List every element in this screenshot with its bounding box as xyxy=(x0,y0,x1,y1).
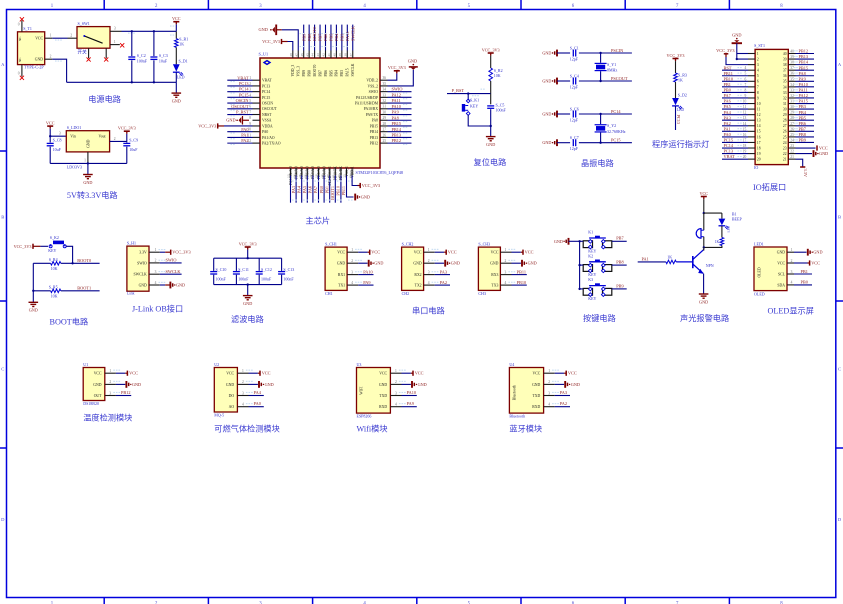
U3 pin 1 VCC xyxy=(390,372,401,374)
svg-text:GND: GND xyxy=(337,262,345,266)
wire resistor to collector node xyxy=(704,246,722,248)
S_CH1 pin 4 TX1 xyxy=(347,284,358,286)
svg-text:2: 2 xyxy=(70,34,72,38)
svg-text:GND: GND xyxy=(226,383,234,387)
svg-text:12: 12 xyxy=(743,111,747,115)
wire ST1 pin 26 to net PB7 xyxy=(796,130,815,132)
svg-text:10K: 10K xyxy=(51,293,58,298)
U1 top pin 45 PB8 xyxy=(308,51,310,59)
U1 left pin 3 PC14 xyxy=(253,91,261,93)
svg-text:VCC_3V3: VCC_3V3 xyxy=(388,65,406,70)
ST1 right pin 21 xyxy=(788,158,795,160)
svg-text:声光报警电路: 声光报警电路 xyxy=(680,313,729,323)
svg-text:32: 32 xyxy=(790,94,794,98)
svg-text:LED: LED xyxy=(727,225,731,232)
svg-text:4: 4 xyxy=(249,93,251,97)
wire rail to K3 xyxy=(580,288,584,290)
ST1 right pin 31 xyxy=(788,103,795,105)
svg-text:S_H1: S_H1 xyxy=(127,240,136,245)
svg-text:AO: AO xyxy=(229,405,235,409)
svg-text:100nF: 100nF xyxy=(496,108,507,113)
junction top S_Y2 xyxy=(599,113,601,115)
wire net VBAT to U1 pin 1 xyxy=(227,79,252,81)
svg-text:38: 38 xyxy=(790,61,794,65)
U1 left pin 8 VSSA xyxy=(253,119,261,121)
svg-text:S_CH1: S_CH1 xyxy=(325,241,337,246)
svg-text:OSCIN: OSCIN xyxy=(262,101,273,105)
svg-text:10K: 10K xyxy=(51,266,58,271)
T1 top no-connect pin xyxy=(21,21,23,32)
svg-text:8: 8 xyxy=(757,91,759,95)
svg-text:17: 17 xyxy=(743,138,747,142)
svg-text:1: 1 xyxy=(351,248,353,252)
svg-text:PB7: PB7 xyxy=(799,126,807,131)
svg-text:28: 28 xyxy=(790,116,794,120)
wire ST1 pin 33 to net PA11 xyxy=(796,91,815,93)
svg-text:30: 30 xyxy=(790,105,794,109)
svg-text:LED1: LED1 xyxy=(754,241,764,246)
svg-text:9: 9 xyxy=(757,96,759,100)
svg-text:VCC_3V3: VCC_3V3 xyxy=(14,244,32,249)
svg-text:PB14: PB14 xyxy=(799,60,809,65)
wire VCC_3V3 to key S_K2 xyxy=(40,245,48,247)
ground symbol alarm xyxy=(699,293,709,295)
ST1 left pin 6 xyxy=(748,80,755,82)
U1 bottom pin 16 PA6/AO xyxy=(306,168,308,176)
svg-text:Vin: Vin xyxy=(70,135,76,139)
svg-text:7: 7 xyxy=(757,85,759,89)
wire ST1 pin 40 to net PB12 xyxy=(796,53,815,55)
svg-text:GND: GND xyxy=(374,261,383,266)
svg-text:PA3: PA3 xyxy=(291,186,296,193)
svg-text:U2: U2 xyxy=(214,362,219,367)
U1 top pin 48 VDD_3 xyxy=(292,51,294,59)
svg-text:PB13: PB13 xyxy=(392,133,402,138)
svg-text:PB12: PB12 xyxy=(799,49,809,54)
ST1 left pin 7 xyxy=(748,86,755,88)
svg-text:VSSA: VSSA xyxy=(262,119,272,123)
svg-text:29: 29 xyxy=(790,111,794,115)
wire P_RST node xyxy=(447,93,491,95)
power GND above VSS_2 xyxy=(411,68,416,70)
svg-text:PSCIN: PSCIN xyxy=(611,48,623,53)
U1 bottom pin 15 PA5/AO xyxy=(301,168,303,176)
ST1 left pin 3 xyxy=(748,64,755,66)
svg-text:32: 32 xyxy=(783,96,787,100)
svg-text:NC: NC xyxy=(18,58,22,62)
svg-text:VCC: VCC xyxy=(415,371,424,376)
svg-text:PB10: PB10 xyxy=(724,76,734,81)
U3 pin 2 GND xyxy=(390,383,401,385)
svg-text:PB4: PB4 xyxy=(335,70,339,77)
ST1 left pin 18 xyxy=(748,147,755,149)
wire U4 RXD to net PA2 xyxy=(555,406,570,408)
power GND for S_C1 xyxy=(556,50,558,57)
wire key to BOOT0 node xyxy=(66,246,72,263)
svg-text:S_C11: S_C11 xyxy=(238,267,249,272)
svg-text:2: 2 xyxy=(249,82,251,86)
wire VSS_1 to GND bottom xyxy=(347,176,354,198)
svg-text:PA3: PA3 xyxy=(440,269,447,274)
svg-text:39: 39 xyxy=(790,55,794,59)
wire GND to key rail xyxy=(569,240,580,242)
svg-text:IO拓展口: IO拓展口 xyxy=(753,182,786,192)
svg-text:34: 34 xyxy=(790,83,794,87)
svg-text:2: 2 xyxy=(428,259,430,263)
svg-text:PA12: PA12 xyxy=(799,93,808,98)
wire U1 bottom pin to net PA3 xyxy=(290,176,292,203)
wire LED to bottom rail xyxy=(175,72,177,82)
svg-text:1: 1 xyxy=(109,369,111,373)
wire net OSCOUT to U1 pin 6 xyxy=(227,108,252,110)
svg-text:37: 37 xyxy=(783,69,787,73)
svg-text:1: 1 xyxy=(242,369,244,373)
wire U2 DO to net PA4 xyxy=(249,395,264,397)
svg-text:S_CH3: S_CH3 xyxy=(478,241,490,246)
svg-text:VCC: VCC xyxy=(172,16,181,21)
svg-text:VCC: VCC xyxy=(35,37,43,41)
svg-text:PC15: PC15 xyxy=(611,138,621,143)
U1 bottom pin 18 PB0/AO xyxy=(318,168,320,176)
wire U1 bottom pin to net BOOT1 xyxy=(329,176,331,203)
svg-text:RXD: RXD xyxy=(532,405,540,409)
svg-text:44: 44 xyxy=(311,53,315,57)
ST1 left pin 10 xyxy=(748,103,755,105)
svg-text:按键电路: 按键电路 xyxy=(583,313,616,323)
U2 pin 4 AO xyxy=(237,406,248,408)
power GND at S_CH2 xyxy=(444,260,446,267)
wire net PA1 to ST1 pin 15 xyxy=(722,130,748,132)
wire VCC to R2 xyxy=(490,56,492,68)
svg-text:40: 40 xyxy=(333,53,337,57)
svg-text:PA11/USB/DM: PA11/USB/DM xyxy=(355,101,379,105)
wire U1 bottom pin to net PB11 xyxy=(340,176,342,203)
capacitor S_C9 xyxy=(126,141,128,142)
svg-text:S_C3: S_C3 xyxy=(159,53,168,58)
svg-text:GND: GND xyxy=(176,283,185,288)
svg-text:NPN: NPN xyxy=(706,263,714,268)
svg-text:43: 43 xyxy=(316,53,320,57)
S_CH1 pin 3 RX1 xyxy=(347,274,358,276)
svg-text:PA9/TX: PA9/TX xyxy=(366,113,378,117)
svg-text:STM32F103C8T6_LQFP48: STM32F103C8T6_LQFP48 xyxy=(356,170,403,175)
svg-text:PB13: PB13 xyxy=(799,54,809,59)
wire cap branch vertical xyxy=(490,94,492,105)
svg-text:GND: GND xyxy=(29,308,38,313)
svg-text:PB9: PB9 xyxy=(799,138,806,143)
svg-text:VDDA: VDDA xyxy=(262,124,273,128)
svg-text:GND: GND xyxy=(813,250,822,255)
svg-text:5: 5 xyxy=(249,99,251,103)
svg-text:38: 38 xyxy=(343,53,347,57)
svg-text:PA1: PA1 xyxy=(241,133,248,138)
wire S_CH1 GND xyxy=(358,262,367,264)
U1 pin 3 OUT xyxy=(105,395,116,397)
svg-text:45: 45 xyxy=(305,53,309,57)
svg-text:9: 9 xyxy=(249,122,251,126)
key S_K1 push button xyxy=(462,104,465,112)
svg-text:VCC_3V3: VCC_3V3 xyxy=(716,48,734,53)
svg-text:PA10: PA10 xyxy=(407,390,416,395)
svg-text:30: 30 xyxy=(383,110,387,114)
ST1 right pin 36 xyxy=(788,75,795,77)
svg-text:22: 22 xyxy=(783,152,787,156)
S_CH2 pin 4 TX2 xyxy=(424,284,435,286)
svg-text:OSCOUT: OSCOUT xyxy=(262,107,277,111)
wire VCC_3V3 to ST1 pin 3 xyxy=(725,54,727,57)
wire ST1 pin 25 to net PB8 xyxy=(796,136,815,138)
connector S_CH1 body xyxy=(325,247,347,290)
capacitor S_C8 xyxy=(49,136,51,142)
wire net PC15 to ST1 pin 17 xyxy=(722,141,748,143)
U1 bottom pin 17 PA7/AO xyxy=(312,168,314,176)
svg-text:CH3: CH3 xyxy=(478,291,486,296)
wire left rail top xyxy=(33,262,50,264)
wire net PA0 to U1 pin 10 xyxy=(227,131,252,133)
svg-text:1: 1 xyxy=(505,248,507,252)
wire net PC14 to U1 pin 3 xyxy=(227,91,252,93)
U2 pin 2 GND xyxy=(237,383,248,385)
svg-text:TX3: TX3 xyxy=(491,284,498,288)
svg-text:S_ST1: S_ST1 xyxy=(754,43,765,48)
svg-text:100nF: 100nF xyxy=(216,277,227,282)
svg-text:22: 22 xyxy=(790,150,794,154)
wire ST1 pin 32 to net PA12 xyxy=(796,97,815,99)
wire VCC_3V3 to VDD_3 top pin xyxy=(288,42,293,51)
svg-text:PB1: PB1 xyxy=(724,82,731,87)
svg-text:GND: GND xyxy=(777,251,785,255)
svg-text:25: 25 xyxy=(783,135,787,139)
svg-text:VCC: VCC xyxy=(129,371,138,376)
LDO S_LDO1 body xyxy=(66,131,109,152)
display LED1 OLED body xyxy=(754,247,787,291)
svg-text:3: 3 xyxy=(791,270,793,274)
svg-text:35: 35 xyxy=(783,80,787,84)
resistor base 1K xyxy=(666,260,676,264)
power GND at ST1 pin 22 xyxy=(796,153,813,155)
wire K3 to net PB9 xyxy=(612,288,627,290)
wire net PB10 to ST1 pin 6 xyxy=(722,80,748,82)
svg-text:PA9: PA9 xyxy=(392,110,399,115)
wire LED to resistor alarm xyxy=(721,226,723,238)
SW1 pin 1 stub right with no-ERC cross xyxy=(110,44,120,46)
wire boot rail vertical xyxy=(32,263,34,291)
wire VCC to R3 xyxy=(675,61,677,73)
S_CH2 pin 1 VCC xyxy=(424,251,435,253)
U1 right pin 30 PA9/TX xyxy=(380,114,388,116)
svg-text:PB9: PB9 xyxy=(301,34,306,41)
svg-text:OSCOUT: OSCOUT xyxy=(231,104,249,109)
LED1 pin 1 GND xyxy=(787,251,794,253)
svg-text:TX1: TX1 xyxy=(338,284,345,288)
wire S_C4 to node and net PSCOUT xyxy=(579,80,632,82)
wire LED D2 down with net PC13 xyxy=(675,106,677,130)
svg-text:BOOT电路: BOOT电路 xyxy=(50,317,89,327)
svg-text:VCC: VCC xyxy=(525,250,534,255)
svg-text:PB8: PB8 xyxy=(307,34,312,41)
svg-text:27: 27 xyxy=(783,124,787,128)
capacitor S_C13 100nF xyxy=(281,258,283,271)
svg-text:1K: 1K xyxy=(715,240,720,244)
svg-text:46: 46 xyxy=(300,53,304,57)
LED S_D1 xyxy=(173,64,180,71)
S_CH2 pin 2 GND xyxy=(424,262,435,264)
svg-text:2: 2 xyxy=(155,259,157,263)
svg-text:LED: LED xyxy=(177,75,185,80)
svg-text:GND: GND xyxy=(542,112,551,117)
U1 left pin 10 PA0 xyxy=(253,131,261,133)
svg-text:S_U1: S_U1 xyxy=(259,52,269,57)
resistor S_R5 10K xyxy=(51,289,61,293)
svg-text:可燃气体检测模块: 可燃气体检测模块 xyxy=(214,424,280,434)
U1 right pin 28 PB15 xyxy=(380,125,388,127)
U1 top pin 46 PB9 xyxy=(303,51,305,59)
svg-text:程序运行指示灯: 程序运行指示灯 xyxy=(652,139,709,149)
svg-text:Bluetooth: Bluetooth xyxy=(509,414,525,419)
H1 pin 2 SWIO xyxy=(149,262,160,264)
T1 pin 2 GND pin stub xyxy=(45,58,53,60)
power GND for S_C4 xyxy=(556,78,558,85)
svg-text:B: B xyxy=(838,215,841,220)
svg-text:GND: GND xyxy=(139,283,147,287)
wire node down to key xyxy=(467,94,469,101)
ST1 right pin 35 xyxy=(788,80,795,82)
svg-text:VCC: VCC xyxy=(491,251,499,255)
svg-text:34: 34 xyxy=(783,85,787,89)
svg-text:K3: K3 xyxy=(588,277,593,282)
wire U1 pin 29 to net PA8 xyxy=(388,119,412,121)
svg-text:GND: GND xyxy=(243,301,252,306)
U2 pin 3 DO xyxy=(237,395,248,397)
svg-text:1: 1 xyxy=(155,248,157,252)
no-ERC cross top of T1 xyxy=(20,17,24,21)
svg-text:S_T1: S_T1 xyxy=(23,26,32,31)
svg-text:C: C xyxy=(838,367,841,372)
svg-text:PA4: PA4 xyxy=(296,185,301,193)
svg-text:温度检测模块: 温度检测模块 xyxy=(83,412,132,422)
svg-text:PA4: PA4 xyxy=(254,390,262,395)
svg-text:P_RST: P_RST xyxy=(236,110,249,115)
H1 pin 1 3.3V xyxy=(149,251,160,253)
connector S_CH2 body xyxy=(402,247,424,290)
svg-text:PA15: PA15 xyxy=(346,68,350,76)
wire K2 to net PB8 xyxy=(612,264,627,266)
ST1 left pin 1 xyxy=(748,53,755,55)
wire ST1 pin 37 to net PB15 xyxy=(796,69,815,71)
U1 top pin 38 PA15 xyxy=(346,51,348,59)
svg-text:VCC: VCC xyxy=(94,372,102,376)
svg-text:C: C xyxy=(1,367,4,372)
svg-text:K1: K1 xyxy=(588,230,593,235)
svg-text:31: 31 xyxy=(790,100,794,104)
junction bottom rail C2 xyxy=(153,81,155,83)
svg-text:PA0: PA0 xyxy=(724,132,731,137)
svg-text:3: 3 xyxy=(395,391,397,395)
ST1 right pin 40 xyxy=(788,53,795,55)
wire net PA6 to ST1 pin 10 xyxy=(722,103,748,105)
svg-text:S_LDO1: S_LDO1 xyxy=(67,125,81,130)
ground symbol power circuit xyxy=(172,92,182,94)
svg-text:PB10: PB10 xyxy=(336,186,341,196)
wire U4 VCC xyxy=(555,372,564,374)
svg-text:100nF: 100nF xyxy=(261,277,272,282)
svg-text:VCC: VCC xyxy=(337,251,345,255)
junction reset gnd node xyxy=(490,125,492,127)
svg-text:TXD: TXD xyxy=(379,394,387,398)
ST1 left pin 11 xyxy=(748,108,755,110)
svg-text:13: 13 xyxy=(757,119,761,123)
wire U1 bottom pin to net PA4 xyxy=(295,176,297,203)
svg-text:3: 3 xyxy=(249,88,251,92)
module U2 body xyxy=(214,368,237,413)
svg-text:S_SW1: S_SW1 xyxy=(78,21,90,26)
svg-text:OUT: OUT xyxy=(94,394,102,398)
svg-text:IO: IO xyxy=(754,165,758,170)
svg-text:GND: GND xyxy=(542,51,551,56)
svg-text:4: 4 xyxy=(548,403,550,407)
S_CH3 pin 2 GND xyxy=(500,262,511,264)
U1 right pin 25 PB12 xyxy=(380,142,388,144)
svg-text:S_C4: S_C4 xyxy=(570,73,579,78)
svg-text:U3: U3 xyxy=(357,362,362,367)
svg-text:1: 1 xyxy=(395,369,397,373)
svg-text:PA2: PA2 xyxy=(560,401,567,406)
svg-text:VCC: VCC xyxy=(699,191,708,196)
svg-text:VCC: VCC xyxy=(819,146,828,151)
wire GND to S_C1 xyxy=(557,52,570,54)
svg-text:VCC_3V3: VCC_3V3 xyxy=(482,47,500,52)
header S_ST1 IO expansion body xyxy=(755,49,788,164)
wire U3 RXD to net PA9 xyxy=(402,406,417,408)
svg-text:S_Y2: S_Y2 xyxy=(607,123,616,128)
wire ST1 pin 36 to net PA8 xyxy=(796,75,815,77)
svg-text:3: 3 xyxy=(548,391,550,395)
wire R1 to LED D1 xyxy=(175,47,177,64)
wire ST1 pin 31 to net PA15 xyxy=(796,103,815,105)
svg-text:6: 6 xyxy=(745,77,747,81)
LED alarm branch xyxy=(721,213,723,219)
wire GND stem filter xyxy=(247,285,249,296)
LDO GND pin down xyxy=(87,152,89,164)
svg-text:GND: GND xyxy=(699,299,708,304)
wire rail to K1 xyxy=(580,240,584,242)
svg-text:35: 35 xyxy=(790,77,794,81)
svg-text:2: 2 xyxy=(505,259,507,263)
U1 top pin 47 VSS_3 xyxy=(297,51,299,59)
svg-text:19: 19 xyxy=(743,150,747,154)
svg-text:29: 29 xyxy=(783,113,787,117)
svg-text:GND: GND xyxy=(93,383,101,387)
key K1 tact switch xyxy=(583,241,592,248)
wire H1 pin4 to GND xyxy=(160,284,165,286)
U1 bottom pin 19 PB1/AO xyxy=(323,168,325,176)
junction top S_Y1 xyxy=(599,52,601,54)
svg-text:VCC: VCC xyxy=(777,261,785,265)
junction C1 top xyxy=(131,30,133,32)
svg-text:PA9: PA9 xyxy=(407,401,414,406)
power VCC at ST1 pin 23 xyxy=(796,147,816,149)
svg-text:15: 15 xyxy=(743,127,747,131)
svg-text:GND: GND xyxy=(83,180,92,185)
wire ST1 pin 39 to net PB13 xyxy=(796,58,815,60)
svg-text:PB6: PB6 xyxy=(799,121,807,126)
svg-text:RX2: RX2 xyxy=(414,273,421,277)
svg-text:3: 3 xyxy=(757,63,759,67)
ST1 right pin 38 xyxy=(788,64,795,66)
wire S_CH3 GND xyxy=(512,262,521,264)
U1 left pin 11 PA1/AO xyxy=(253,136,261,138)
wire ST1 pin 21 to 3.3V xyxy=(796,159,803,167)
